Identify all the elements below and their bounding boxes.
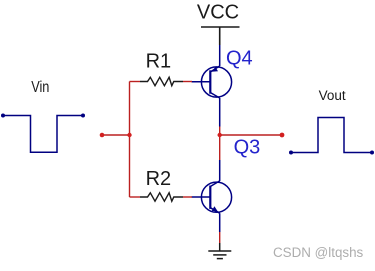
power port VCC bar symbol <box>201 27 240 45</box>
resistor R2 <box>140 193 183 201</box>
wire R1 right to Q4 base <box>183 81 192 83</box>
transistor Q4 emitter arrow (points into base bar: PNP) <box>211 67 218 72</box>
transistor Q3 (NPN) <box>192 181 232 232</box>
svg-text:Q3: Q3 <box>234 136 261 158</box>
svg-text:R1: R1 <box>146 51 172 73</box>
ground <box>208 243 231 259</box>
wire junction to Q3 collector (navy pin part) <box>219 160 221 181</box>
transistor Q4 (PNP) <box>192 66 232 127</box>
wire left vertical bus <box>129 82 131 198</box>
node Vout port dot <box>280 133 285 138</box>
Vin waveform <box>3 116 83 153</box>
svg-text:VCC: VCC <box>197 2 239 24</box>
wire R2 right to Q3 base <box>183 196 192 198</box>
node Vout waveform end dots <box>289 151 293 155</box>
node Vin port dot <box>100 133 105 138</box>
Vout waveform <box>291 118 372 153</box>
svg-text:Vin: Vin <box>31 79 49 96</box>
svg-text:R2: R2 <box>146 168 172 190</box>
resistor R1 <box>140 77 183 85</box>
wire left bus to R2 left <box>130 196 141 198</box>
node center junction dot <box>218 133 222 137</box>
node Vin waveform end dots <box>1 114 5 118</box>
svg-text:Q4: Q4 <box>226 48 253 70</box>
wire Q3 emitter to ground (red part) <box>219 232 221 243</box>
wire Q4 collector to junction (red part) <box>219 127 221 161</box>
node junction left bus <box>127 133 131 137</box>
wire Vin-node to R1 left <box>130 81 141 83</box>
wire output row: center junction to Vout port <box>220 134 282 136</box>
svg-text:CSDN @ltqshs: CSDN @ltqshs <box>273 245 364 260</box>
wire Vin stub <box>102 134 130 136</box>
wire VCC to Q4 emitter <box>219 45 221 66</box>
transistor Q3 emitter arrow (points outward: NPN) <box>212 206 218 211</box>
svg-text:Vout: Vout <box>319 88 346 103</box>
